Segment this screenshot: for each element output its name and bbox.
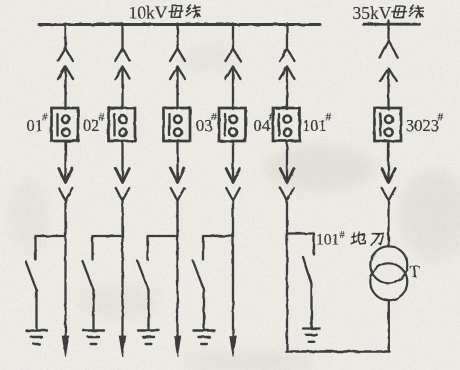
drawout contact (bus side) of breaker 03# — [170, 49, 185, 80]
wire: 35kV bus drop to breaker 3023# — [387, 21, 389, 41]
label: 35kV bus — [353, 3, 424, 23]
wire: breaker 01# to lower drawout contact — [64, 141, 66, 182]
wire: outgoing cable, feeder 02# — [121, 201, 123, 339]
label: breaker 03# — [196, 112, 217, 136]
wire: 101# earthing-switch branch — [287, 234, 314, 255]
earthing switch (knife) blade, feeder 03# — [138, 261, 149, 290]
wire: earthing-switch branch, feeder 02# — [93, 236, 123, 260]
wire: 10kV bus drop, feeder 03# — [176, 24, 178, 49]
label: breaker 01# — [27, 112, 48, 136]
ground (earth) symbol, feeder 03# — [138, 331, 159, 345]
circuit breaker 3023# (handcart type) — [375, 108, 402, 141]
drawout contact (cable side) of breaker 3023# — [382, 169, 396, 201]
arrow: outgoing feeder 03# to load — [174, 336, 181, 357]
circuit breaker 03# (handcart type) — [164, 108, 191, 141]
wire: 10kV bus drop, feeder 01# — [64, 24, 66, 49]
wire: feeder 101# down to bottom tie — [286, 201, 288, 352]
drawout contact (bus side) of breaker 101# — [280, 49, 295, 80]
wire: earthing-switch branch, feeder 01# — [36, 236, 66, 260]
wire: transformer T to bottom tie — [388, 300, 390, 351]
wire: outgoing cable, feeder 03# — [176, 201, 178, 339]
wire: earthing-switch branch, feeder 03# — [148, 236, 178, 260]
wire: earthing-switch branch, feeder 04# — [203, 236, 233, 260]
ground (earth) symbol, feeder 04# — [194, 331, 215, 345]
label: 10kV bus — [129, 3, 201, 23]
transformer T (two-winding) — [370, 246, 407, 300]
circuit breaker 01# (handcart type) — [52, 108, 79, 141]
circuit breaker 04# (handcart type) — [219, 108, 246, 141]
label: breaker 101# — [302, 112, 332, 136]
circuit breaker 02# (handcart type) — [109, 108, 136, 141]
ground (earth) symbol, feeder 01# — [26, 331, 47, 345]
earthing switch (knife) blade, feeder 04# — [193, 261, 204, 290]
wire: breaker 101# to lower drawout contact — [286, 141, 288, 182]
drawout contact (bus side) of breaker 3023# — [380, 40, 398, 81]
drawout contact (bus side) of breaker 01# — [58, 49, 73, 80]
ground (earth) symbol, feeder 02# — [83, 331, 104, 345]
earthing switch (knife) blade, feeder 01# — [26, 261, 37, 290]
wire: contact to breaker 04# — [232, 67, 234, 110]
wire: contact to breaker 03# — [176, 67, 178, 110]
drawout contact (cable side) of breaker 02# — [116, 169, 130, 201]
wire: breaker 3023# to transformer T — [387, 201, 389, 247]
circuit breaker 101# (handcart type) — [273, 108, 300, 141]
label: breaker 3023# — [406, 112, 444, 136]
wire: contact to breaker 101# — [286, 67, 288, 110]
wire: blade to ground, feeder 03# — [147, 290, 149, 329]
wire: breaker 03# to lower drawout contact — [176, 141, 178, 182]
label: breaker 02# — [83, 112, 104, 136]
wire: contact to breaker 02# — [121, 67, 123, 110]
wire: blade to ground, feeder 02# — [92, 290, 94, 329]
label: transformer T — [410, 262, 421, 281]
arrow: outgoing feeder 04# to load — [230, 336, 237, 357]
wire: bottom tie between feeder 101# and transformer bay — [286, 350, 390, 352]
ground (earth) symbol, 101# earth switch — [303, 329, 320, 342]
wire: 10kV bus drop, feeder 101# — [286, 24, 288, 49]
drawout contact (bus side) of breaker 02# — [115, 49, 130, 80]
drawout contact (cable side) of breaker 101# — [280, 169, 294, 201]
wire: breaker 3023# to lower drawout contact — [387, 141, 389, 182]
wire: blade to ground, feeder 01# — [35, 290, 37, 329]
wire: 10kV bus drop, feeder 04# — [232, 24, 234, 49]
wire: outgoing cable, feeder 04# — [232, 201, 234, 339]
35kV busbar — [364, 23, 420, 26]
arrow: outgoing feeder 02# to load — [119, 336, 126, 357]
wire: breaker 04# to lower drawout contact — [232, 141, 234, 182]
drawout contact (cable side) of breaker 04# — [226, 169, 240, 201]
drawout contact (cable side) of breaker 01# — [59, 169, 73, 201]
label: breaker 04# — [254, 112, 275, 136]
drawout contact (cable side) of breaker 03# — [171, 169, 185, 201]
10kV busbar — [39, 23, 320, 26]
arrow: outgoing feeder 01# to load — [62, 336, 69, 357]
wire: breaker 02# to lower drawout contact — [121, 141, 123, 182]
earthing switch (knife) blade, feeder 02# — [83, 261, 94, 290]
earthing switch 101# (di-dao) blade — [303, 257, 312, 285]
wire: contact to breaker 01# — [64, 67, 66, 110]
wire: blade to ground, feeder 04# — [203, 290, 205, 329]
wire: 10kV bus drop, feeder 02# — [121, 24, 123, 49]
wire: contact to breaker 3023# — [387, 69, 389, 110]
label: 101# earth knife (101# di-dao) — [316, 230, 384, 249]
wire: 101# earth switch to ground — [310, 284, 312, 328]
wire: outgoing cable, feeder 01# — [64, 201, 66, 339]
drawout contact (bus side) of breaker 04# — [226, 49, 241, 80]
